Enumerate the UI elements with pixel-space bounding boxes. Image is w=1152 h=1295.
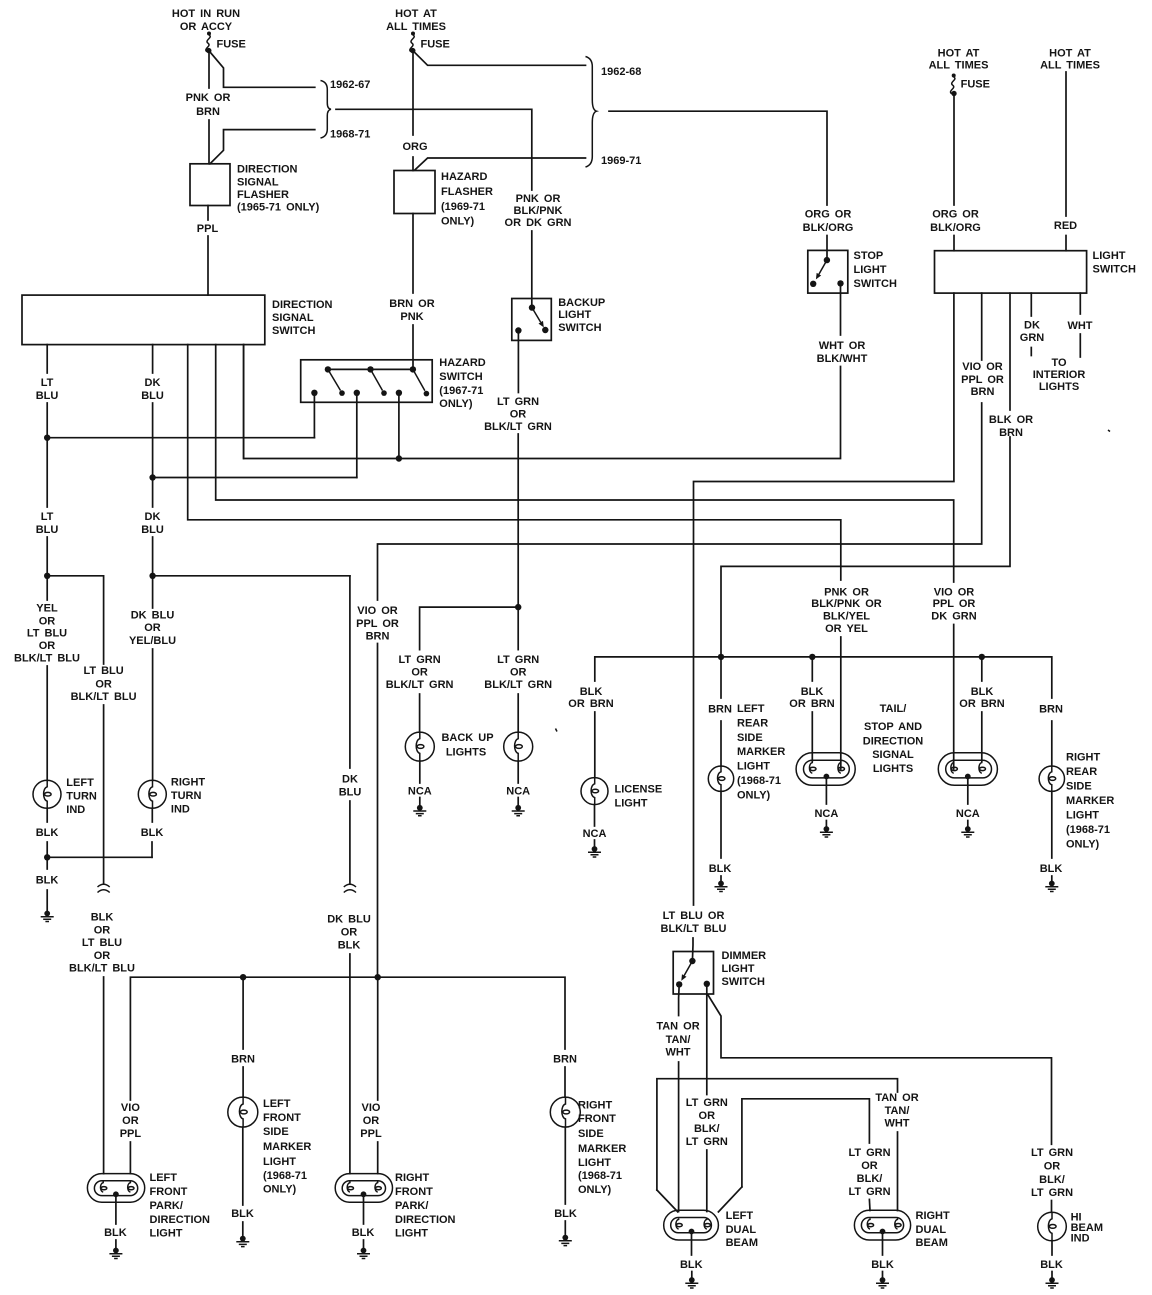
speck 2 [1108,430,1110,432]
svg-text:LEFT: LEFT [726,1210,754,1222]
svg-text:HOT AT: HOT AT [938,48,980,60]
svg-text:IND: IND [66,804,85,816]
svg-text:RIGHT: RIGHT [395,1172,430,1184]
svg-text:OR: OR [94,925,111,937]
svg-text:YEL: YEL [36,603,58,615]
svg-text:SWITCH: SWITCH [854,278,897,290]
wire brace2 output to stop light switch [609,111,853,260]
svg-text:(1965-71 ONLY): (1965-71 ONLY) [237,202,320,214]
svg-text:LIGHTS: LIGHTS [873,763,913,775]
lamp LEFT DUAL BEAM [664,1210,758,1249]
svg-text:LIGHT: LIGHT [1093,250,1126,262]
svg-text:RIGHT: RIGHT [171,777,206,789]
lamp TAIL/STOP left oval [796,703,923,785]
svg-text:LT: LT [41,377,54,389]
svg-text:LEFT: LEFT [66,777,94,789]
svg-text:LT BLU: LT BLU [82,937,122,949]
wire RED to light switch [1054,72,1077,251]
node HOT AT ALL TIMES (hazard) [386,8,446,33]
svg-text:PARK/: PARK/ [395,1200,428,1212]
node junction bus / left tail [809,654,815,660]
lamp RIGHT FRONT PARK/DIRECTION [335,1172,455,1240]
wire break symbol (DK BLU) [344,884,356,892]
wire DSS pin4 to right tail (turn feed) [216,345,977,769]
svg-text:LT GRN: LT GRN [1031,1187,1073,1199]
svg-text:BACK UP: BACK UP [441,732,493,744]
svg-text:ORG OR: ORG OR [805,209,852,221]
svg-text:BLK/: BLK/ [857,1173,883,1185]
svg-text:LIGHT: LIGHT [150,1228,183,1240]
wire NCA + ground (left backup) [408,761,432,816]
fuse F2 [410,32,450,54]
wire left turn ind ground BLK [36,808,59,857]
svg-text:1962-67: 1962-67 [330,79,370,91]
svg-text:BRN: BRN [971,386,995,398]
svg-text:LT GRN: LT GRN [497,654,539,666]
svg-text:SIGNAL: SIGNAL [237,177,279,189]
svg-text:BLU: BLU [339,787,362,799]
svg-text:TAN/: TAN/ [666,1034,691,1046]
svg-text:(1967-71: (1967-71 [439,385,483,397]
wire DSS pin5 (stop feed riser) [243,345,245,459]
wire hazard pin2 down [356,393,358,478]
svg-text:INTERIOR: INTERIOR [1033,369,1086,381]
svg-text:PPL OR: PPL OR [356,618,399,630]
svg-text:PNK OR: PNK OR [186,92,231,104]
wire bus to right tail pin [959,657,1004,761]
node junction LT BLU / hazard link [44,435,314,441]
svg-text:BLK/ORG: BLK/ORG [930,222,981,234]
svg-text:DUAL: DUAL [726,1224,757,1236]
svg-text:BLK/LT BLU: BLK/LT BLU [69,963,135,975]
svg-text:ONLY): ONLY) [1066,839,1100,851]
svg-text:OR: OR [144,622,161,634]
wire NCA + ground (left tail) [814,778,838,837]
svg-text:BRN: BRN [196,106,220,118]
wire break symbol (left front) [98,884,110,892]
wire low beam crossover [718,1099,890,1212]
wire dimmer TAN output (high beam) [656,984,699,1211]
wire VIO OR PPL right front park [360,977,382,1173]
svg-text:OR: OR [341,927,358,939]
svg-text:FUSE: FUSE [421,39,450,51]
lamp LEFT FRONT PARK/DIRECTION [87,1172,210,1240]
brace years 1962-67 / 1968-71 [321,79,371,141]
svg-text:OR: OR [510,409,527,421]
svg-text:LIGHT: LIGHT [578,1157,611,1169]
svg-text:HOT AT: HOT AT [395,8,437,20]
svg-text:PNK OR: PNK OR [516,193,561,205]
wire PPL flasher to switch [197,206,219,296]
svg-text:BLK: BLK [801,686,824,698]
svg-text:SWITCH: SWITCH [272,325,315,337]
svg-text:RIGHT: RIGHT [1066,752,1101,764]
hazard switch contacts [311,366,429,396]
fuse F3 [951,74,990,97]
brace years 1962-68 / 1969-71 [586,57,642,168]
svg-text:BACKUP: BACKUP [558,297,605,309]
svg-text:WHT: WHT [1067,320,1092,332]
svg-text:(1968-71: (1968-71 [578,1170,622,1182]
svg-text:BLK: BLK [680,1259,703,1271]
svg-text:(1968-71: (1968-71 [737,775,781,787]
svg-text:OR YEL: OR YEL [825,623,868,635]
svg-text:MARKER: MARKER [1066,795,1114,807]
wire dimmer LT GRN output (low beam) [686,984,728,1212]
svg-text:OR ACCY: OR ACCY [180,21,233,33]
lamp RIGHT FRONT SIDE MARKER [550,1097,626,1196]
svg-text:STOP: STOP [854,250,884,262]
svg-text:PNK OR: PNK OR [824,587,869,599]
svg-text:PNK: PNK [400,311,423,323]
svg-text:ONLY): ONLY) [737,790,771,802]
wire NCA + ground (license) [583,805,607,857]
svg-text:MARKER: MARKER [263,1141,311,1153]
svg-text:BLK/PNK OR: BLK/PNK OR [811,598,882,610]
wire right backup light feed [484,607,552,732]
svg-text:OR: OR [699,1110,716,1122]
svg-text:FLASHER: FLASHER [441,186,493,198]
svg-text:RIGHT: RIGHT [916,1210,951,1222]
wire NCA + ground (right backup) [506,761,530,816]
svg-text:LIGHT: LIGHT [737,761,770,773]
svg-text:BLK/LT GRN: BLK/LT GRN [484,421,552,433]
wire label BLK OR LT BLU OR BLK/LT BLU [69,912,135,1174]
svg-text:BRN OR: BRN OR [389,298,434,310]
svg-text:BLU: BLU [141,524,164,536]
wire DSS pin3 to left tail (turn feed) [188,345,882,769]
svg-text:BRN: BRN [231,1054,255,1066]
wire branch 1968-71 [210,130,315,164]
wire fuse1 branch 1962-67 [209,51,315,88]
svg-text:PPL OR: PPL OR [961,374,1004,386]
svg-text:SWITCH: SWITCH [439,371,482,383]
wire BLK + ground (right marker) [1040,791,1063,891]
svg-text:LT GRN: LT GRN [1031,1147,1073,1159]
svg-text:NCA: NCA [408,786,432,798]
svg-text:PPL: PPL [360,1128,382,1140]
svg-text:RIGHT: RIGHT [578,1100,613,1112]
svg-text:LT BLU OR: LT BLU OR [663,910,725,922]
ground (turn ind) [41,911,54,922]
svg-text:OR BRN: OR BRN [568,698,613,710]
svg-text:BLK: BLK [231,1208,254,1220]
svg-text:DK: DK [145,511,161,523]
wire dimmer branch to hi beam ind [708,995,1073,1212]
svg-text:DIRECTION: DIRECTION [150,1214,211,1226]
backup light switch box [512,297,605,340]
svg-text:(1968-71: (1968-71 [263,1170,307,1182]
wire BLK to ground (turn ind) [36,857,59,911]
svg-text:FRONT: FRONT [150,1186,188,1198]
svg-text:FRONT: FRONT [395,1186,433,1198]
lamp LICENSE LIGHT [581,778,662,810]
node HOT AT ALL TIMES (light switch fuse) [929,48,989,72]
wire light switch pin5 WHT to interior lights [1033,293,1093,393]
svg-text:DIMMER: DIMMER [722,950,767,962]
svg-text:BEAM: BEAM [916,1237,948,1249]
svg-text:BLK/LT BLU: BLK/LT BLU [661,923,727,935]
svg-text:HAZARD: HAZARD [439,357,485,369]
svg-text:HOT IN RUN: HOT IN RUN [172,8,240,20]
svg-text:ORG OR: ORG OR [932,209,979,221]
wire fuse2 branch 1962-68 [413,51,586,66]
svg-text:BLK: BLK [352,1227,375,1239]
svg-text:LICENSE: LICENSE [615,784,663,796]
wire right turn ind BLK to ground link [141,808,164,857]
wire high beam crossover [657,1079,919,1212]
lamp BACK UP LIGHT right [504,732,533,761]
svg-text:NCA: NCA [506,786,530,798]
direction signal switch box [22,295,333,345]
lamp RIGHT DUAL BEAM [854,1210,950,1249]
svg-text:BLK/: BLK/ [694,1123,720,1135]
svg-text:PPL: PPL [120,1128,142,1140]
svg-text:LIGHT: LIGHT [854,264,887,276]
svg-text:RED: RED [1054,220,1077,232]
svg-text:LT GRN: LT GRN [399,654,441,666]
svg-text:LT GRN: LT GRN [686,1097,728,1109]
svg-text:OR: OR [363,1115,380,1127]
svg-text:FUSE: FUSE [217,39,246,51]
svg-text:TAIL/: TAIL/ [880,703,907,715]
svg-text:SIGNAL: SIGNAL [872,749,914,761]
svg-text:WHT OR: WHT OR [819,340,866,352]
wire BLK + ground (right dual beam) [871,1233,894,1288]
wire fuse2 to hazard flasher (ORG) [402,51,427,171]
svg-text:OR: OR [411,667,428,679]
svg-text:VIO OR: VIO OR [962,361,1003,373]
svg-text:REAR: REAR [737,718,768,730]
svg-text:FRONT: FRONT [578,1113,616,1125]
wire light switch pin3 BLK OR BRN to tail bus [721,293,1033,657]
wire front park bus [120,977,565,1173]
svg-text:VIO OR: VIO OR [934,587,975,599]
wire hazard pin3 down [396,393,402,462]
wire fuse3 to light switch ORG OR BLK/ORG [930,94,981,251]
svg-text:BLU: BLU [36,390,59,402]
svg-text:BLU: BLU [141,390,164,402]
svg-text:IND: IND [1071,1233,1090,1245]
svg-text:BRN: BRN [1039,704,1063,716]
node junction LT BLU / front feed [44,573,104,664]
svg-text:LT BLU: LT BLU [27,628,67,640]
wire DSS pin1 LT BLU [36,345,59,600]
hazard switch box [301,357,486,410]
wire brace1 output to backup light switch [336,109,572,307]
wire BRN OR PNK flasher to hazard switch [389,214,434,370]
svg-text:BLK/LT BLU: BLK/LT BLU [14,653,80,665]
svg-text:PPL: PPL [197,223,219,235]
svg-text:BLK: BLK [871,1259,894,1271]
node junction DK BLU / front feed [149,573,349,579]
svg-text:VIO: VIO [362,1102,381,1114]
svg-text:LIGHT: LIGHT [615,798,648,810]
svg-text:(1969-71: (1969-71 [441,201,485,213]
svg-text:BRN: BRN [708,704,732,716]
svg-text:DIRECTION: DIRECTION [237,164,298,176]
svg-text:LIGHT: LIGHT [722,963,755,975]
dimmer light switch box [673,950,766,994]
svg-text:SWITCH: SWITCH [558,322,601,334]
svg-text:OR BRN: OR BRN [959,698,1004,710]
wire backup switch output LT GRN OR BLK/LT GRN [484,331,552,608]
svg-text:MARKER: MARKER [737,746,785,758]
svg-text:OR: OR [510,667,527,679]
svg-text:TO: TO [1051,357,1067,369]
svg-text:ORG: ORG [402,141,427,153]
svg-text:BLK/WHT: BLK/WHT [817,353,868,365]
wire light switch pin2 VIO OR PPL OR BRN to front parks [356,293,1004,977]
speck [556,729,558,732]
lamp RIGHT TURN IND [138,777,205,816]
svg-text:SIDE: SIDE [737,732,763,744]
wire LT BLU OR BLK/LT BLU to left front park [71,665,137,884]
lamp LEFT REAR SIDE MARKER [708,703,785,802]
svg-text:MARKER: MARKER [578,1143,626,1155]
svg-text:SIDE: SIDE [1066,781,1092,793]
svg-text:SWITCH: SWITCH [722,976,765,988]
fuse F1 [206,32,246,54]
svg-text:NCA: NCA [814,808,838,820]
svg-text:(1968-71: (1968-71 [1066,824,1110,836]
svg-text:ONLY): ONLY) [441,216,475,228]
svg-text:BLK/ORG: BLK/ORG [803,222,854,234]
svg-text:HOT AT: HOT AT [1049,48,1091,60]
svg-text:NCA: NCA [956,808,980,820]
svg-text:SIGNAL: SIGNAL [272,312,314,324]
svg-text:BLK/: BLK/ [1039,1174,1065,1186]
svg-text:YEL/BLU: YEL/BLU [129,635,176,647]
wire BLK + ground (left dual beam) [680,1233,703,1288]
svg-text:BLK: BLK [104,1227,127,1239]
wire BLK + ground (hi beam ind) [1040,1241,1063,1288]
wire light switch pin4 DK GRN stub [1020,293,1045,355]
svg-text:BRN: BRN [999,427,1023,439]
wire BRN left rear marker [708,657,732,766]
svg-text:ALL TIMES: ALL TIMES [386,21,446,33]
node junction DK BLU / hazard link [149,474,356,480]
svg-text:SWITCH: SWITCH [1093,264,1136,276]
svg-text:DK: DK [1024,320,1040,332]
wire branch 1969-71 [415,158,586,170]
wire DK BLU to right front park [339,576,362,884]
svg-text:DIRECTION: DIRECTION [272,299,333,311]
svg-text:BLU: BLU [36,524,59,536]
svg-text:OR: OR [39,616,56,628]
svg-text:ONLY): ONLY) [263,1184,297,1196]
svg-text:VIO OR: VIO OR [357,605,398,617]
wire stop switch output WHT OR BLK/WHT [244,283,868,458]
svg-text:SIDE: SIDE [263,1126,289,1138]
svg-text:LT: LT [41,511,54,523]
svg-text:TAN OR: TAN OR [656,1021,699,1033]
svg-text:BLK/LT BLU: BLK/LT BLU [71,691,137,703]
svg-text:DK BLU: DK BLU [131,610,175,622]
wire light switch pin1 to dimmer [661,293,954,961]
svg-text:FUSE: FUSE [961,79,990,91]
svg-text:BLK: BLK [971,686,994,698]
svg-text:LT GRN: LT GRN [686,1136,728,1148]
svg-text:SIDE: SIDE [578,1128,604,1140]
svg-text:LIGHTS: LIGHTS [446,747,486,759]
lamp TAIL/STOP right oval [938,753,997,786]
svg-text:LT GRN: LT GRN [848,1147,890,1159]
wire BRN right front side marker [553,1054,577,1098]
svg-text:PARK/: PARK/ [150,1200,183,1212]
svg-text:OR BRN: OR BRN [789,698,834,710]
svg-text:OR: OR [94,950,111,962]
svg-text:DIRECTION: DIRECTION [863,736,924,748]
lamp LEFT TURN IND [33,777,97,816]
svg-text:BLK: BLK [709,863,732,875]
svg-text:ALL TIMES: ALL TIMES [929,60,989,72]
svg-text:ONLY): ONLY) [578,1184,612,1196]
svg-text:NCA: NCA [583,828,607,840]
svg-text:BLK: BLK [338,940,361,952]
wire YEL OR LT BLU label + left turn ind feed [14,603,80,781]
svg-text:BLK/LT GRN: BLK/LT GRN [386,679,454,691]
wire BRN right rear marker [1039,704,1063,767]
lamp HI BEAM IND [1038,1212,1103,1245]
wire BLK + ground (left marker) [709,791,732,891]
svg-text:REAR: REAR [1066,766,1097,778]
svg-text:BLK: BLK [36,875,59,887]
svg-text:BLK: BLK [141,827,164,839]
svg-text:LIGHT: LIGHT [395,1228,428,1240]
svg-text:OR: OR [861,1160,878,1172]
svg-text:LT GRN: LT GRN [497,396,539,408]
wire BRN left front side marker [231,977,255,1097]
svg-text:TURN: TURN [66,791,97,803]
svg-text:OR: OR [95,679,112,691]
svg-text:OR: OR [122,1115,139,1127]
node junction turn ind grounds [44,854,152,860]
svg-text:FRONT: FRONT [263,1112,301,1124]
wire rear lamp bus [595,657,1052,698]
svg-text:DUAL: DUAL [916,1224,947,1236]
direction signal flasher box [190,164,320,214]
wire BLK + ground (right front park) [352,1196,375,1259]
svg-text:1969-71: 1969-71 [601,155,641,167]
svg-text:1968-71: 1968-71 [330,129,370,141]
svg-text:LEFT: LEFT [737,703,765,715]
svg-text:ONLY): ONLY) [439,398,473,410]
svg-text:OR: OR [1044,1161,1061,1173]
wire license light feed BLK OR BRN [568,686,613,778]
wire BLK + ground (right front marker) [554,1127,577,1246]
wire bus to left tail pin [789,657,834,761]
svg-text:BLK/YEL: BLK/YEL [823,611,870,623]
svg-text:FLASHER: FLASHER [237,189,289,201]
node junction front bus / left marker [240,974,246,980]
svg-text:VIO: VIO [121,1102,140,1114]
svg-text:BLK: BLK [91,912,114,924]
wire BLK + ground (left front marker) [231,1127,254,1247]
svg-text:LT GRN: LT GRN [848,1186,890,1198]
svg-text:OR: OR [39,640,56,652]
svg-text:WHT: WHT [665,1046,690,1058]
svg-text:IND: IND [171,804,190,816]
svg-text:LEFT: LEFT [150,1172,178,1184]
wire BLK + ground (left front park) [104,1196,127,1259]
wire left backup light feed [386,654,454,732]
node junction bus / BRN left marker [718,654,724,660]
node junction front bus / right park [375,974,381,980]
svg-text:WHT: WHT [884,1118,909,1130]
svg-text:GRN: GRN [1020,332,1045,344]
svg-text:DK GRN: DK GRN [931,611,976,623]
